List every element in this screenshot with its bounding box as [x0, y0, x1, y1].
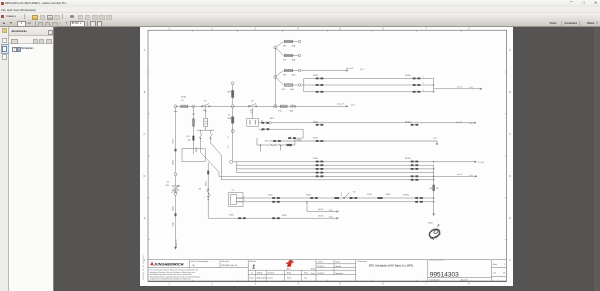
svg-text:XB16: XB16 — [313, 158, 318, 160]
wire S6 to X300 line — [208, 217, 338, 219]
connector X300 pin — [238, 217, 241, 219]
svg-text:Name: Name — [287, 277, 292, 279]
wire horn merge — [433, 198, 435, 216]
wire horn line 2 — [243, 201, 434, 203]
node battery top terminal — [174, 173, 177, 176]
wire battery return — [175, 195, 177, 247]
connector X300 contact on loop — [288, 137, 291, 139]
svg-text:6: 6 — [382, 284, 384, 286]
wire merged wsrt output — [434, 175, 477, 177]
svg-text:TCC1: TCC1 — [433, 138, 437, 140]
svg-text:2: 2 — [211, 284, 213, 286]
svg-text:F: F — [509, 260, 511, 262]
svg-text:1F8: 1F8 — [429, 188, 432, 190]
svg-text:A: A — [509, 49, 511, 52]
svg-text:von: von — [493, 273, 496, 275]
svg-text:48V: 48V — [166, 185, 170, 187]
connector XB700 pin on XB75 line — [411, 124, 414, 126]
svg-text:10: 10 — [503, 273, 506, 275]
svg-text:B: B — [144, 92, 146, 94]
svg-text:Blatt: Blatt — [493, 263, 497, 266]
wire bundle merge bar — [433, 165, 435, 180]
svg-text:F9: F9 — [182, 100, 185, 102]
svg-text:29.05.19: 29.05.19 — [318, 273, 325, 275]
svg-text:X806: X806 — [386, 194, 391, 196]
toolbar row 1 — [0, 13, 600, 20]
connector XB16 pins bundle group — [316, 161, 319, 163]
wire merged output wsrt — [434, 88, 482, 90]
svg-text:C: C — [144, 134, 146, 136]
svg-text:wsrt 25: wsrt 25 — [456, 121, 462, 124]
svg-text:F1: F1 — [228, 114, 231, 116]
svg-text:Bearb.: Bearb. — [311, 268, 316, 271]
svg-text:schwarz 35: schwarz 35 — [175, 239, 178, 248]
wire hub line 3 — [237, 168, 434, 170]
svg-text:X330: X330 — [306, 195, 311, 197]
connector XB700 horn pins — [415, 197, 418, 199]
svg-text:XB16: XB16 — [313, 122, 318, 124]
svg-text:XB40: XB40 — [173, 205, 175, 211]
svg-text:(4-1): (4-1) — [351, 105, 355, 107]
connector XB75 contact — [259, 122, 263, 124]
wire XB700 feed line 3 — [304, 91, 434, 93]
node battery bottom terminal — [175, 190, 177, 192]
red certification logo — [287, 260, 293, 267]
svg-text:6541: 6541 — [173, 138, 175, 143]
svg-text:XB75: XB75 — [270, 118, 275, 120]
node 3F9 top terminal — [231, 82, 234, 85]
svg-text:EPC Schaltplan DAG Basis (1x M: EPC Schaltplan DAG Basis (1x MP3) — [369, 263, 413, 267]
fuse F26 30A — [277, 78, 284, 85]
node junction at 3F9 branch — [231, 105, 234, 108]
svg-text:Neumann: Neumann — [336, 273, 343, 275]
wire hub line 4 — [237, 172, 434, 174]
wire hub riser — [236, 162, 238, 173]
connector XB16 pin on XB75 line — [316, 124, 319, 126]
connector contact after S2 — [350, 197, 353, 199]
title block vertical dividers — [188, 260, 190, 268]
wire XB700 feed line 2 — [304, 84, 434, 86]
svg-text:XB40: XB40 — [173, 159, 175, 165]
svg-text:(4-1): (4-1) — [470, 87, 474, 89]
node bus left terminal — [174, 105, 177, 108]
switch contact K3 — [203, 104, 210, 107]
node K1 output junctions — [200, 138, 201, 139]
svg-text:K7: K7 — [251, 112, 254, 114]
Jungheinrich logo — [150, 262, 153, 266]
svg-text:wsws 25: wsws 25 — [337, 104, 344, 106]
title block outline — [148, 259, 507, 261]
svg-text:99514303_00k_04: 99514303_00k_04 — [221, 265, 237, 267]
wire XB700 merge bar — [433, 78, 435, 91]
node contactor tie point — [231, 129, 234, 132]
fuse 3F6 20A — [277, 71, 284, 77]
svg-text:XB10: XB10 — [282, 215, 287, 217]
svg-text:XB10: XB10 — [268, 195, 273, 197]
svg-text:X300: X300 — [229, 214, 235, 216]
svg-text:Bereich: Bereich — [336, 265, 342, 268]
svg-text:X660: X660 — [205, 181, 207, 186]
PDF page — [140, 27, 513, 286]
svg-text:3F1: 3F1 — [283, 45, 287, 47]
svg-text:Datum: Datum — [268, 276, 274, 279]
wire horn line 1 — [243, 197, 434, 199]
toolbar row 2 — [0, 20, 600, 27]
svg-text:D: D — [509, 176, 511, 178]
wire fuse-tree riser — [274, 48, 276, 107]
svg-text:(4-1): (4-1) — [469, 123, 473, 125]
svg-text:1: 1 — [423, 77, 424, 79]
svg-text:2: 2 — [423, 83, 424, 85]
svg-text:3: 3 — [423, 90, 424, 92]
svg-text:F26: F26 — [282, 89, 286, 91]
svg-text:Ersatz für: Ersatz für — [461, 279, 468, 282]
fuse 3F1 30A — [277, 42, 284, 47]
svg-text:G1: G1 — [167, 181, 171, 183]
disclaimer text — [150, 269, 201, 281]
svg-text:3F9: 3F9 — [227, 92, 232, 94]
svg-text:(4-1): (4-1) — [470, 175, 474, 177]
svg-text:3F2: 3F2 — [283, 59, 287, 61]
wire 3F6 output wsws to frame edge — [301, 70, 348, 72]
svg-text:99514303: 99514303 — [430, 272, 459, 279]
svg-text:XB16: XB16 — [313, 138, 318, 140]
node fuse-tree upper — [274, 46, 277, 49]
fuse F1 50A — [232, 117, 234, 124]
svg-text:wsws 25: wsws 25 — [346, 68, 353, 70]
svg-text:rtB 05: rtB 05 — [318, 208, 324, 211]
svg-text:(4-2): (4-2) — [329, 210, 333, 212]
svg-text:2A: 2A — [188, 139, 191, 142]
connector XB10 pins — [272, 197, 275, 199]
svg-text:Diese Zeichnung und deren Inha: Diese Zeichnung und deren Inhalt sind ex… — [150, 269, 199, 272]
svg-text:XB700: XB700 — [405, 158, 411, 160]
svg-text:Dokument: Dokument — [221, 260, 229, 263]
svg-text:30.12.11: 30.12.11 — [268, 273, 275, 275]
wire K1 output 1 to bundle — [201, 138, 434, 176]
svg-text:420A: 420A — [181, 96, 186, 99]
svg-text:JUNGHEINRICH: JUNGHEINRICH — [154, 262, 184, 266]
svg-text:D: D — [144, 176, 146, 178]
window title bar — [0, 0, 600, 7]
wire 1F4 branch — [192, 108, 194, 154]
svg-text:Datum: Datum — [318, 261, 324, 264]
svg-text:1: 1 — [504, 264, 506, 266]
svg-text:S2: S2 — [353, 191, 356, 193]
connector XB700 pins top group — [413, 78, 416, 80]
svg-text:30A: 30A — [292, 44, 296, 47]
wire F26 output branch riser — [300, 84, 304, 86]
svg-text:30A: 30A — [292, 58, 296, 61]
switch S2 — [334, 197, 339, 199]
svg-text:20A: 20A — [292, 73, 296, 76]
relay K1 contacts — [197, 129, 214, 131]
svg-text:1: 1 — [204, 197, 205, 199]
wire K7 A2 loop — [259, 128, 263, 130]
wire S6 branch — [207, 163, 209, 219]
menu bar — [0, 7, 600, 13]
svg-text:Maßstab: Maßstab — [249, 260, 256, 263]
node hub line1 tap — [433, 161, 434, 162]
title block row lines — [148, 267, 248, 269]
svg-text:3: 3 — [254, 284, 256, 286]
svg-text:XB700: XB700 — [405, 122, 411, 124]
svg-text:H: H — [228, 136, 230, 138]
svg-text:1: 1 — [168, 284, 170, 286]
svg-text:Zeichnungsnummer: Zeichnungsnummer — [430, 259, 445, 262]
svg-text:5: 5 — [339, 284, 341, 286]
connector contact after F15 — [291, 105, 293, 107]
svg-text:E: E — [509, 218, 511, 220]
svg-text:30A: 30A — [290, 109, 294, 112]
connector XB700 pins bundle group — [411, 161, 414, 163]
svg-text:1: 1 — [252, 265, 255, 271]
svg-text:50A: 50A — [227, 117, 231, 120]
svg-text:B: B — [509, 92, 511, 94]
svg-text:Tope: Tope — [304, 273, 308, 275]
svg-text:5 (C-4): 5 (C-4) — [478, 162, 484, 164]
svg-text:wsrt 2: wsrt 2 — [457, 85, 462, 88]
frame column/row tick labels — [144, 29, 512, 286]
svg-text:E: E — [144, 218, 146, 220]
wire XB75 line to right — [272, 122, 477, 124]
svg-text:C7: C7 — [228, 145, 230, 148]
svg-text:XB20: XB20 — [428, 222, 433, 224]
svg-text:K3: K3 — [204, 100, 207, 102]
svg-text:XB41: XB41 — [196, 147, 198, 152]
node after F9 — [192, 105, 195, 108]
navigation icon strip — [0, 27, 9, 291]
svg-text:7: 7 — [425, 284, 427, 286]
fuse F15 30A — [280, 105, 287, 107]
connector block X below 1F4 — [182, 149, 205, 162]
switch contact K5 — [250, 104, 257, 107]
wire hub line 1 — [233, 161, 477, 163]
svg-text:A: A — [144, 49, 146, 52]
contactor K7 coil box — [247, 118, 259, 126]
right scrollbar — [594, 27, 600, 291]
svg-text:F15: F15 — [278, 110, 282, 112]
svg-text:X7: X7 — [232, 190, 235, 192]
date/name block — [333, 260, 335, 275]
svg-text:(4-1): (4-1) — [360, 69, 364, 71]
svg-text:Index: Index — [250, 277, 254, 279]
svg-text:Änderung-Nr.: Änderung-Nr. — [257, 276, 268, 279]
svg-text:K5: K5 — [251, 100, 254, 102]
connector X330 pin — [310, 197, 313, 199]
node TCC drop — [436, 141, 438, 145]
wire F1 riser — [232, 108, 234, 160]
horn H1 — [426, 224, 444, 240]
svg-text:4: 4 — [297, 284, 299, 286]
wire main supply bus — [176, 105, 349, 107]
node fuse-tree lower — [274, 76, 277, 79]
svg-text:8: 8 — [468, 284, 470, 286]
svg-text:XB700: XB700 — [403, 195, 409, 197]
svg-text:X30: X30 — [265, 141, 269, 143]
svg-text:wsrt 2: wsrt 2 — [457, 173, 462, 176]
svg-text:XB16: XB16 — [313, 75, 318, 77]
svg-text:X330: X330 — [367, 194, 372, 196]
frame column tick marks — [192, 30, 194, 32]
svg-text:1: 1 — [422, 123, 423, 125]
svg-text:Halter für Ersatzteilgebr.: Halter für Ersatzteilgebr. — [191, 260, 210, 263]
node fuse-tree junction on bus — [274, 105, 277, 108]
wire hub line 2 — [237, 164, 434, 166]
svg-text:Bend: Bend — [287, 273, 291, 275]
svg-text:Benennung: Benennung — [358, 261, 367, 263]
wire X30 row — [257, 144, 295, 146]
drawing frame border — [148, 30, 507, 281]
svg-text:(4-4): (4-4) — [329, 216, 333, 218]
svg-text:K541: K541 — [173, 221, 175, 227]
wire battery riser — [175, 108, 177, 173]
fuse 1F4 2A — [192, 119, 194, 126]
svg-text:1F4: 1F4 — [186, 136, 190, 138]
svg-text:OE: OE — [192, 265, 195, 267]
svg-text:XB700: XB700 — [405, 75, 411, 77]
svg-text:rtB 05: rtB 05 — [318, 214, 324, 217]
fuse 3F9 branch — [232, 85, 234, 105]
svg-text:Name: Name — [336, 262, 341, 264]
fuse 1F8 2A on merge bar — [433, 180, 435, 198]
svg-text:AUDI: AUDI — [287, 268, 291, 271]
fuse 3F2 30A — [277, 49, 284, 56]
connector X330b pin — [378, 197, 383, 199]
node distribution hub — [230, 160, 233, 163]
wire rtB cross reference upper — [307, 202, 339, 212]
connector XB10 pin on bottom line — [272, 217, 275, 219]
wire XB700 feed line 1 — [304, 77, 434, 79]
svg-text:Gepr.: Gepr. — [311, 272, 315, 275]
svg-text:99514303_00k_04 24.10.2011: 99514303_00k_04 24.10.2011 — [143, 255, 145, 280]
svg-text:30A: 30A — [290, 88, 294, 91]
connector XB16 pins top group — [316, 78, 319, 80]
svg-text:2A: 2A — [436, 187, 439, 190]
svg-text:S6: S6 — [198, 188, 201, 190]
svg-text:Tag: Tag — [304, 277, 307, 279]
svg-text:G: G — [251, 273, 253, 275]
svg-text:C: C — [509, 134, 511, 136]
svg-text:123159: 123159 — [257, 273, 263, 275]
revision table columns — [254, 270, 256, 281]
fuse F9 420A — [181, 105, 188, 107]
svg-text:24.10.11: 24.10.11 — [318, 266, 325, 268]
wire K5 to K7 coil — [252, 108, 254, 119]
svg-text:Ursprungstext: Ursprungstext — [430, 279, 440, 282]
wire K1 output 2 to bundle — [211, 138, 434, 179]
wire TCC line — [269, 140, 437, 142]
bookmarks panel — [9, 27, 54, 291]
svg-text:3F6: 3F6 — [283, 74, 287, 76]
